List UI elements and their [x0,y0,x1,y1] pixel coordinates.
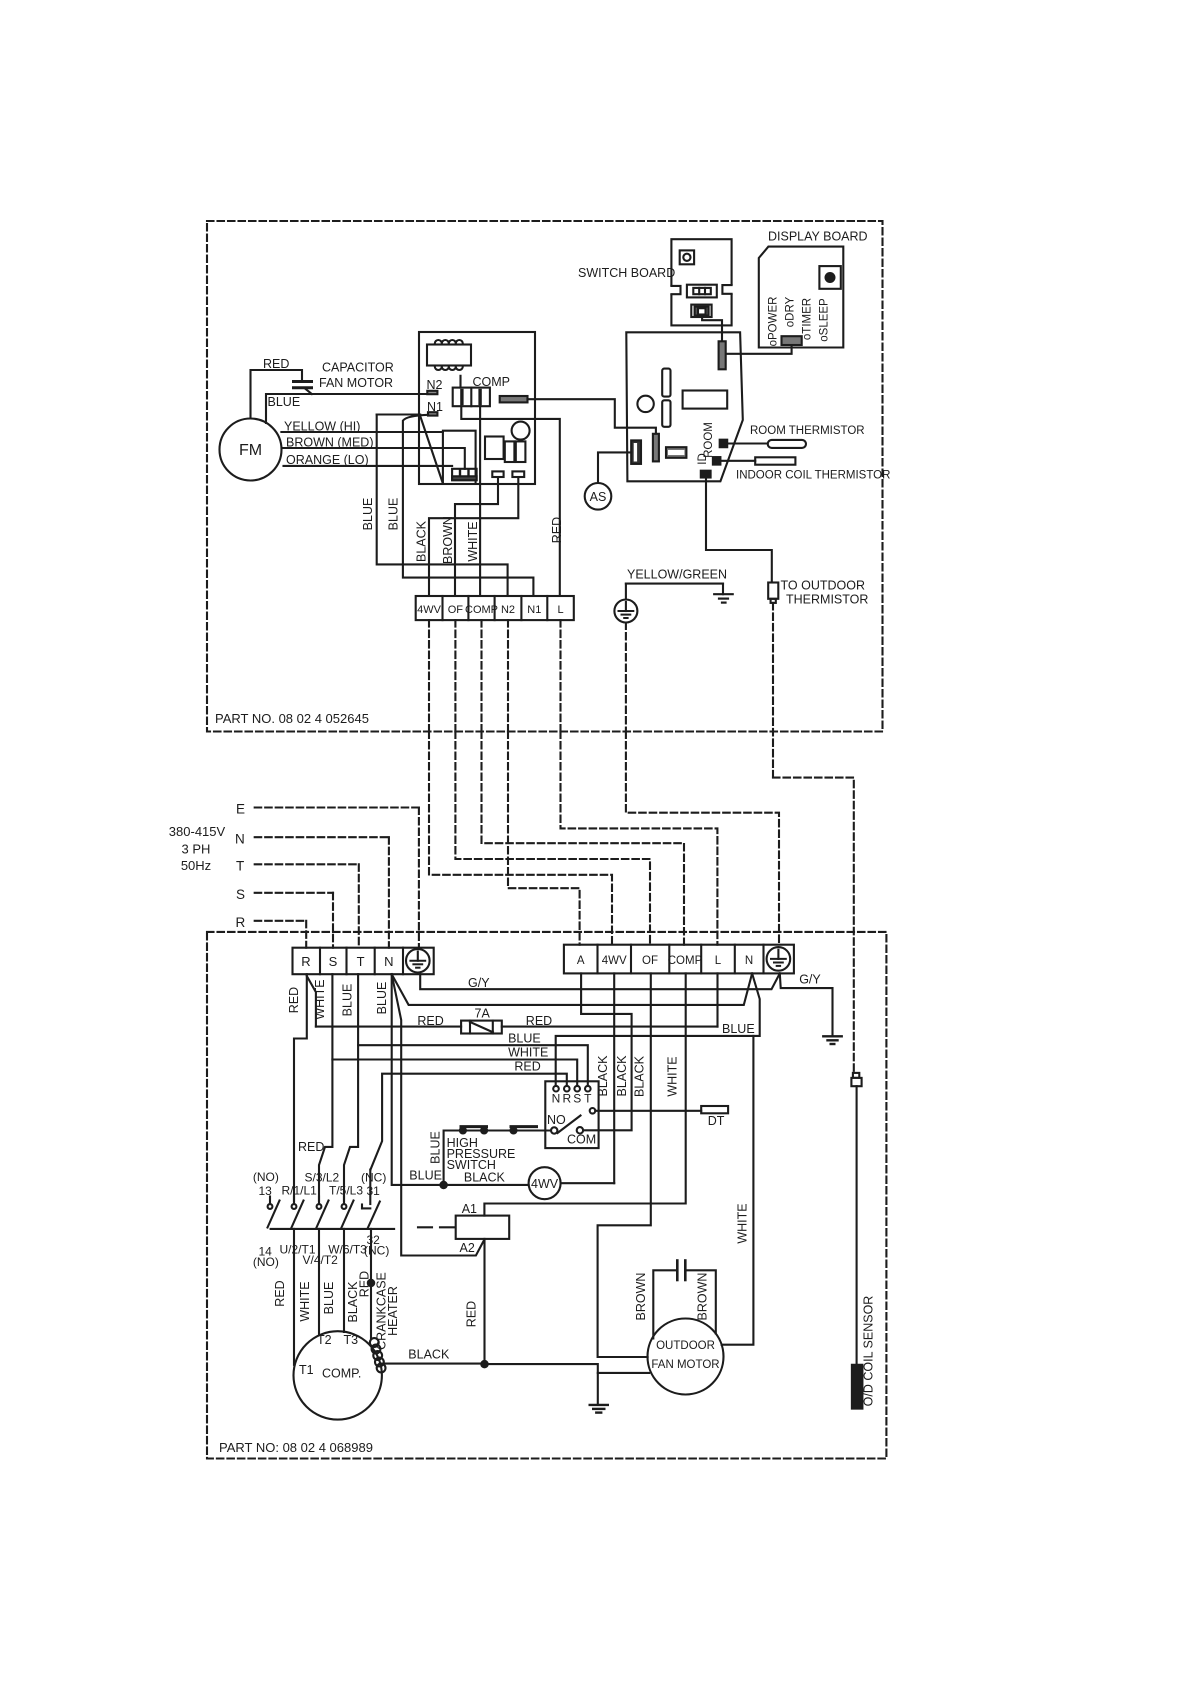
svg-text:R/1/L1: R/1/L1 [282,1184,318,1198]
wire N1 to terminal N1 (BLUE) [403,415,534,596]
interconnect L [561,732,718,945]
svg-text:A1: A1 [462,1202,477,1216]
svg-text:BROWN: BROWN [441,516,455,564]
svg-text:BROWN: BROWN [634,1273,648,1321]
wire CN1 to CN2 [528,399,656,434]
wire 4WV (BLACK) [429,477,518,596]
svg-text:ROOM THERMISTOR: ROOM THERMISTOR [750,425,865,437]
svg-text:BLUE: BLUE [429,1131,443,1164]
wire R to fuse [307,976,316,1027]
board small terminal (to 4WV) [512,471,524,477]
wire L to fuse [716,973,718,1026]
svg-text:A: A [577,955,585,967]
svg-text:4WV: 4WV [417,604,442,616]
room thermistor [727,442,768,444]
connector CN-display (vertical) [719,341,726,369]
O/D coil sensor plug [853,1073,859,1078]
fan speed contact block [452,469,477,480]
indoor unit dashed enclosure [207,221,883,732]
svg-text:BLUE: BLUE [375,982,389,1015]
svg-text:BROWN: BROWN [696,1273,710,1321]
wire fan frame to ground [598,1372,649,1374]
bottom terminal labels [251,1240,393,1267]
svg-text:FAN MOTOR: FAN MOTOR [651,1359,719,1371]
svg-text:INDOOR COIL THERMISTOR: INDOOR COIL THERMISTOR [736,470,890,482]
svg-text:S: S [573,1092,581,1106]
wire OF (BROWN) [455,477,498,596]
terminal N1 on board [428,412,437,415]
outdoor fan motor [648,1319,724,1395]
svg-text:50Hz: 50Hz [181,858,211,873]
svg-text:4WV: 4WV [602,955,627,967]
connector CN2 (from power board) [653,434,659,462]
svg-text:OF: OF [642,955,658,967]
wire S phase (WHITE) [319,974,332,1201]
svg-text:N1: N1 [527,604,541,616]
wire 4WV (BLACK) [613,973,615,1183]
terminal outdoor thermistor [701,471,711,478]
4WV solenoid [444,1184,529,1186]
outdoor terminal strip A 4WV OF COMP L N E [564,945,794,974]
svg-text:O/D COIL SENSOR: O/D COIL SENSOR [862,1296,876,1407]
terminal ID [713,457,721,465]
svg-text:AS: AS [590,490,607,504]
svg-text:BLUE: BLUE [361,498,375,531]
svg-text:NO: NO [547,1113,566,1127]
wire T phase (BLUE) [344,974,358,1201]
svg-text:oDRY: oDRY [785,296,797,327]
dashed lead earth [625,623,627,732]
board component circle [512,422,530,440]
svg-text:R: R [562,1092,571,1106]
svg-text:ORANGE (LO): ORANGE (LO) [286,453,369,467]
svg-text:RED: RED [358,1271,372,1297]
svg-text:N: N [552,1092,561,1106]
svg-text:T: T [357,954,365,969]
svg-text:T2: T2 [317,1333,332,1347]
wire switch board to main board [702,317,722,341]
dashed lead outdoor thermistor [772,603,774,778]
svg-text:G/Y: G/Y [799,973,821,987]
svg-text:7A: 7A [475,1007,491,1021]
wire AS [598,452,631,483]
svg-text:BLACK: BLACK [415,520,429,562]
svg-text:T1: T1 [299,1363,314,1377]
svg-text:T/5/L3: T/5/L3 [329,1184,363,1198]
svg-text:N2: N2 [427,378,443,392]
svg-text:BLUE: BLUE [722,1022,755,1036]
svg-text:(NC): (NC) [361,1171,386,1185]
svg-text:COMP: COMP [465,604,498,616]
earth terminal (right strip) [767,947,791,971]
wire N (BLUE) to 4WV coil [392,974,444,1185]
O/D coil sensor lead [856,1086,858,1365]
interconnect COMP [482,732,685,945]
svg-text:N: N [384,954,393,969]
svg-text:PART NO: 08 02 4 068989: PART NO: 08 02 4 068989 [219,1440,373,1455]
terminal strip indoor (4WV OF COMP N2 N1 L) [416,596,574,620]
crankcase heater coil [370,1338,379,1347]
svg-text:WHITE: WHITE [666,1056,680,1096]
svg-text:WHITE: WHITE [508,1046,548,1060]
wire N to contactor coil A2 [392,974,484,1255]
wire NC32 to crankcase heater [370,1229,372,1338]
wire L3 to compressor T3 (BLUE) [343,1229,345,1332]
interconnect 4WV [429,732,612,945]
svg-text:T: T [584,1092,592,1106]
relay block NRST [545,1081,598,1148]
svg-text:31: 31 [367,1184,381,1198]
wire NRST R to contact NC31 (RED) [371,1074,567,1170]
svg-text:RED: RED [273,1280,287,1306]
svg-text:TO OUTDOOR: TO OUTDOOR [781,579,866,593]
earth wire to ground (G/Y) [780,973,833,1036]
svg-text:WHITE: WHITE [736,1203,750,1243]
board slim rect 2 [662,400,670,427]
svg-text:3 PH: 3 PH [182,842,211,857]
svg-text:(NO): (NO) [253,1255,279,1269]
svg-text:4WV: 4WV [531,1177,559,1191]
svg-text:RED: RED [287,987,301,1013]
svg-text:RED: RED [514,1060,540,1074]
interconnect earth [626,732,779,945]
svg-text:BLACK: BLACK [464,1171,506,1185]
wire BLUE capacitor to N2 terminal [266,394,427,423]
svg-text:DISPLAY BOARD: DISPLAY BOARD [768,230,868,244]
svg-text:YELLOW (HI): YELLOW (HI) [284,420,360,434]
wire OF (BLACK) to fan motor [598,973,651,1357]
svg-text:DT: DT [708,1114,725,1128]
wire A to relay COM (BLACK) [581,973,632,1130]
wire YELLOW (HI) [281,431,443,433]
svg-text:WHITE: WHITE [313,979,327,1019]
svg-text:ID: ID [697,453,709,465]
svg-text:RED: RED [417,1014,443,1028]
svg-text:S/3/L2: S/3/L2 [305,1171,340,1185]
svg-text:RED: RED [550,517,564,543]
wire R phase (RED) [294,974,307,1201]
wire relay L to terminal L (RED) [461,406,560,596]
svg-text:RED: RED [465,1301,479,1327]
svg-text:OUTDOOR: OUTDOOR [656,1340,715,1352]
svg-text:FAN MOTOR: FAN MOTOR [319,376,393,390]
wire ORANGE (LO) [284,465,453,467]
svg-text:L: L [557,604,563,616]
svg-text:oSLEEP: oSLEEP [819,298,831,342]
defrost thermostat DT [595,1110,701,1112]
svg-text:RED: RED [263,357,289,371]
svg-text:T3: T3 [344,1333,359,1347]
svg-text:A2: A2 [460,1241,475,1255]
svg-text:PART NO. 08 02 4 052645: PART NO. 08 02 4 052645 [215,711,369,726]
svg-text:oTIMER: oTIMER [802,298,814,340]
svg-text:L: L [715,955,722,967]
display board connector [782,336,802,345]
svg-text:BLACK: BLACK [633,1055,647,1097]
svg-text:380-415V: 380-415V [169,824,226,839]
wire to outdoor thermistor connector [706,478,772,583]
svg-text:BLUE: BLUE [268,395,301,409]
svg-text:RED: RED [298,1140,324,1154]
svg-text:BROWN (MED): BROWN (MED) [286,436,374,450]
wire fan to N (WHITE) [722,1036,754,1345]
svg-text:S: S [329,954,338,969]
fan capacitor [676,1261,679,1281]
svg-text:oPOWER: oPOWER [768,297,780,347]
board flat connector [666,447,686,458]
wire BROWN (MED) [283,448,465,469]
svg-text:BLACK: BLACK [615,1055,629,1097]
board slim rect 1 [662,369,670,397]
svg-text:R: R [301,954,310,969]
earth plug (circled) [625,584,627,600]
svg-text:BLUE: BLUE [341,984,355,1017]
svg-text:COM: COM [567,1133,596,1147]
board component rects [485,437,504,460]
wire coil to ground/heater node (RED) [483,1239,485,1364]
svg-text:E: E [236,802,245,817]
board large rect [683,391,728,409]
wire N2 to terminal N2 (BLUE) [377,413,421,415]
svg-text:S: S [236,887,245,902]
earth terminal (left strip) [406,949,430,973]
board circle component [637,396,653,412]
fan motor FM [220,419,282,481]
svg-text:OF: OF [448,604,464,616]
contactor coil A1/A2 [456,1216,510,1239]
junction dot 4WV/HPS [440,1182,446,1188]
svg-text:BLUE: BLUE [409,1169,442,1183]
svg-text:T: T [236,859,244,874]
ground symbol right [823,1035,841,1037]
indoor coil thermistor [720,460,755,462]
svg-text:R: R [236,915,246,930]
wire relay COMP to terminal COMP (WHITE) [479,406,481,596]
transformer T1 [435,340,463,344]
indoor power board outline [419,332,535,484]
wire heater to node (BLACK) [382,1363,485,1365]
terminal ROOM [720,440,728,448]
relay L/COMP [459,376,461,388]
svg-text:YELLOW/GREEN: YELLOW/GREEN [627,568,727,582]
svg-text:N2: N2 [501,604,515,616]
interconnect N2 to A [508,732,580,945]
wire N outdoor strip down (BLUE) [556,973,760,1086]
dashed leads leaving indoor strip [428,620,430,731]
connector CN1 (to switch board) [500,396,528,402]
svg-text:HEATER: HEATER [386,1286,400,1336]
terminal N2 on board [427,391,437,394]
svg-text:BLUE: BLUE [508,1032,541,1046]
svg-text:BLUE: BLUE [322,1282,336,1315]
outdoor unit dashed enclosure [207,932,886,1459]
svg-text:RED: RED [526,1014,552,1028]
interconnect OF [455,732,650,945]
AS plug [585,483,612,510]
earth bus G/Y [420,973,780,989]
fuse 7A [316,1026,461,1028]
capacitor fan motor [294,380,312,383]
mechanical link [271,1228,395,1230]
svg-text:THERMISTOR: THERMISTOR [786,593,868,607]
svg-text:WHITE: WHITE [298,1281,312,1321]
wire L2 to compressor T2 (WHITE) [318,1229,320,1335]
svg-text:SWITCH BOARD: SWITCH BOARD [578,266,675,280]
outdoor terminal strip R S T N E [293,948,434,975]
wire into board (diagonal) [420,416,443,484]
svg-text:BLACK: BLACK [408,1348,450,1362]
wire L1 to compressor T1 (RED) [293,1229,295,1365]
svg-text:BLUE: BLUE [387,498,401,531]
wire COMP (WHITE) to contactor coil A1 [484,973,685,1215]
svg-text:G/Y: G/Y [468,976,490,990]
compressor [294,1331,382,1419]
wire N to outdoor strip N (BLUE) [392,973,752,1005]
outdoor thermistor connector [768,583,778,599]
interconnect outdoor thermistor to O/D sensor [773,778,854,1073]
svg-text:COMP: COMP [668,955,703,967]
svg-text:(NC): (NC) [364,1244,389,1258]
svg-text:CAPACITOR: CAPACITOR [322,361,394,375]
inner sub-board [443,431,476,484]
svg-text:N1: N1 [427,400,443,414]
wire RED from FM to capacitor [251,370,303,419]
wire T tap to NRST T (BLUE) [358,1045,588,1086]
indoor control board outline [626,332,743,481]
connector CN-AS [631,440,641,464]
ground symbol fan [590,1404,608,1406]
svg-text:ROOM: ROOM [703,422,715,458]
wire display board to main board [726,345,792,354]
O/D coil sensor [852,1365,863,1409]
svg-text:COMP.: COMP. [322,1367,361,1381]
wire S tap to NRST S (WHITE) [332,1060,577,1086]
board small terminal (to OF) [492,471,503,477]
svg-text:FM: FM [239,442,262,459]
svg-text:(NO): (NO) [253,1170,279,1184]
svg-text:N: N [235,832,245,847]
high pressure switch [444,1131,551,1186]
svg-text:WHITE: WHITE [466,521,480,561]
svg-text:W/6/T3: W/6/T3 [328,1243,367,1257]
wire node to ground [485,1364,598,1405]
svg-text:N: N [745,955,753,967]
